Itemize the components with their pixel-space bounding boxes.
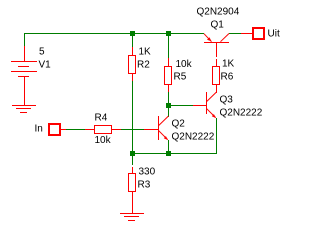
wire R3 top — [132, 156, 133, 165]
svg-text:R2: R2 — [137, 60, 150, 71]
resistor R2 — [132, 47, 133, 55]
node junction rail-R5 — [166, 31, 171, 36]
wire Q2 collector — [168, 108, 169, 117]
Q2 emitter diagonal — [159, 131, 168, 140]
svg-text:10k: 10k — [176, 59, 193, 70]
transistor Q2 bar — [158, 116, 159, 140]
wire R2 top — [132, 35, 133, 47]
svg-text:Q1: Q1 — [211, 20, 225, 31]
wire R5 top — [168, 35, 169, 58]
wire battery top — [24, 34, 25, 46]
Q1 emitter diagonal — [204, 34, 212, 42]
ground under battery — [12, 105, 36, 106]
resistor R3 — [132, 167, 133, 173]
svg-text:Uit: Uit — [268, 29, 280, 40]
Q3 emitter diagonal — [207, 109, 216, 118]
wire Q3 emitter down — [216, 118, 217, 153]
svg-text:V1: V1 — [39, 60, 52, 71]
ground under R3 — [120, 213, 144, 214]
wire R5 bottom — [168, 92, 169, 103]
node junction rail-R2 — [130, 31, 135, 36]
wire R4 to Q2 base — [121, 129, 144, 130]
Q1 emitter arrow (PNP) — [207, 37, 212, 41]
svg-text:5: 5 — [39, 47, 45, 58]
transistor Q1 bar — [204, 42, 229, 43]
wire Q2 emitter down — [168, 140, 169, 151]
resistor R6 — [216, 59, 217, 66]
wire In to R4 — [66, 129, 85, 130]
Q2 collector diagonal — [159, 116, 169, 126]
node junction R3 top — [130, 151, 135, 156]
svg-text:R4: R4 — [95, 113, 108, 124]
svg-text:1K: 1K — [139, 47, 152, 58]
battery V1 — [24, 46, 25, 61]
svg-text:Q2N2222: Q2N2222 — [220, 108, 263, 119]
svg-text:R3: R3 — [138, 180, 151, 191]
transistor Q2 base lead — [144, 129, 158, 130]
transistor Q1 base lead — [216, 43, 217, 57]
Q2 emitter arrow — [164, 136, 168, 140]
svg-text:Q2N2222: Q2N2222 — [172, 132, 215, 143]
svg-text:Q2N2904: Q2N2904 — [197, 6, 240, 17]
transistor Q3 base lead — [193, 105, 206, 106]
svg-text:R5: R5 — [174, 72, 187, 83]
node junction Q2 emitter rail — [166, 151, 171, 156]
wire top rail V1+ to Q1 emitter — [24, 33, 204, 34]
Q3 emitter arrow — [212, 114, 216, 118]
svg-text:R6: R6 — [221, 72, 234, 83]
resistor R5 — [168, 58, 169, 66]
svg-text:10k: 10k — [95, 135, 112, 146]
Q1 collector diagonal — [221, 34, 230, 42]
wire Q1 collector to Uit — [229, 33, 241, 34]
node junction R5-Q2C-Q3B — [166, 103, 171, 108]
svg-text:330: 330 — [139, 167, 156, 178]
wire bottom emitter rail — [132, 153, 217, 154]
svg-text:1K: 1K — [222, 59, 235, 70]
resistor R4 — [85, 129, 94, 130]
wire R2 bottom long — [132, 81, 133, 151]
svg-text:In: In — [35, 124, 43, 135]
svg-text:Q3: Q3 — [220, 95, 234, 106]
port In box — [49, 124, 60, 135]
Q3 collector diagonal — [207, 92, 217, 102]
wire Q3 base — [171, 105, 193, 106]
port Uit box — [253, 28, 264, 39]
svg-text:Q2: Q2 — [172, 119, 186, 130]
transistor Q3 bar — [206, 92, 207, 114]
